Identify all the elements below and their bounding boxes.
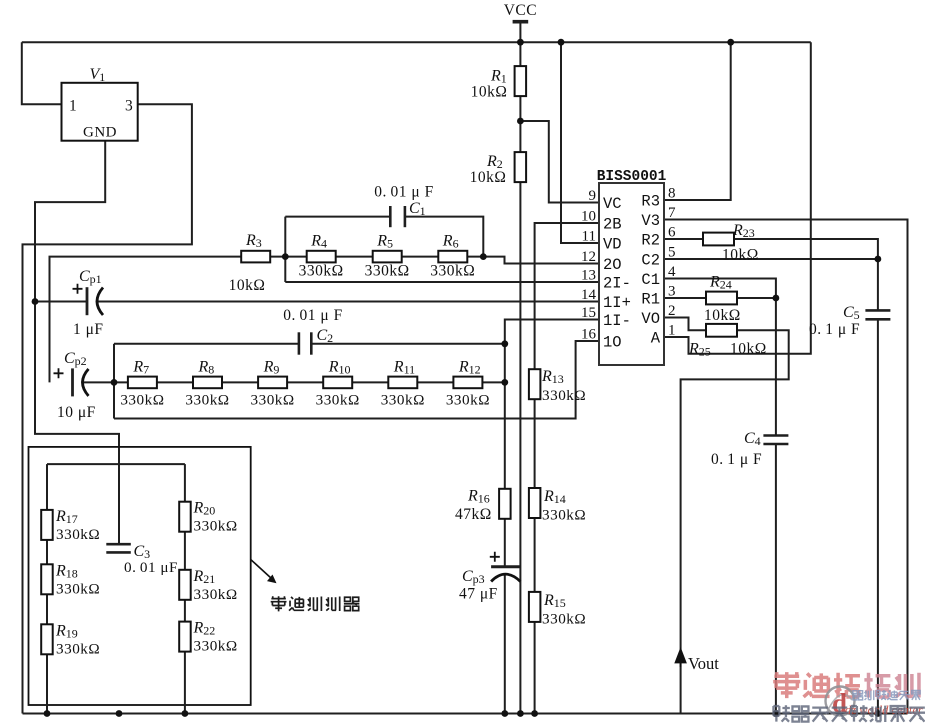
resistor R17 (41, 508, 100, 543)
resistor R20 (179, 500, 237, 535)
node Cp2-R7-C2 junction (111, 379, 118, 386)
node ground rail junction (531, 710, 538, 717)
svg-text:R7: R7 (132, 359, 149, 377)
capacitor C5 (865, 310, 890, 319)
capacitor Cp1 (73, 284, 104, 315)
node VCC-rail junction (517, 39, 524, 46)
resistor R10 (316, 359, 360, 409)
svg-text:330kΩ: 330kΩ (542, 611, 586, 628)
wire pin10 2B to R13 (535, 223, 599, 370)
svg-text:330kΩ: 330kΩ (185, 392, 229, 409)
svg-text:GND: GND (83, 125, 117, 141)
wire C4 to ground (775, 444, 777, 714)
wire R8-R9 (222, 381, 258, 383)
wire node A2 to pin 12 (483, 257, 599, 264)
wire Cp1 out to pin 14 (98, 301, 600, 303)
resistor R21 (179, 568, 237, 603)
wire R10-R11 (352, 381, 388, 383)
resistor R7 (120, 359, 164, 409)
svg-text:10 μF: 10 μF (57, 404, 96, 421)
svg-text:0. 01 μ F: 0. 01 μ F (283, 307, 342, 324)
svg-text:10kΩ: 10kΩ (704, 307, 741, 324)
svg-text:R12: R12 (458, 359, 481, 377)
node R24-pin4 junction (773, 295, 780, 302)
wire R9-R10 (287, 381, 323, 383)
watermark logo text (773, 672, 925, 722)
resistor R14 (529, 488, 586, 524)
wire VC to pin 9 (520, 121, 599, 203)
svg-text:R16: R16 (467, 488, 490, 506)
svg-text:R21: R21 (193, 568, 216, 586)
wire V1 GND to C3 (35, 141, 119, 545)
wire R25 to Vout line (681, 330, 789, 713)
svg-text:10kΩ: 10kΩ (722, 247, 759, 264)
svg-text:330kΩ: 330kΩ (56, 526, 100, 543)
wire C1 loop top-right (405, 217, 483, 257)
svg-text:V1: V1 (90, 66, 106, 84)
svg-text:330kΩ: 330kΩ (194, 638, 238, 655)
wire pin 5 C2 to C5 (664, 258, 878, 260)
svg-text:R5: R5 (376, 233, 393, 251)
node R6-C1 junction (480, 253, 487, 260)
resistor R6 (430, 233, 475, 280)
svg-text:R25: R25 (688, 341, 711, 359)
svg-text:2I-: 2I- (603, 275, 631, 293)
label C3 (124, 543, 178, 576)
wire R2 to ground (519, 181, 521, 714)
node ground rail junction (773, 710, 780, 717)
wire C2 loop top-left (114, 343, 299, 345)
svg-text:R3: R3 (641, 193, 660, 211)
svg-text:330kΩ: 330kΩ (251, 392, 295, 409)
svg-text:5: 5 (668, 245, 676, 261)
wire R3 to node A1 (270, 256, 306, 258)
svg-text:330kΩ: 330kΩ (120, 392, 164, 409)
wire C1 loop left (284, 217, 286, 282)
wire C5 to ground (877, 319, 879, 713)
wire R5-R6 (402, 256, 439, 258)
svg-text:Cp2: Cp2 (64, 350, 87, 368)
bandpass filter box (29, 447, 251, 705)
svg-text:13: 13 (581, 268, 596, 284)
svg-text:R22: R22 (193, 620, 216, 638)
capacitor C4 (763, 436, 788, 445)
wire VCC to pin 11 VD (561, 42, 599, 243)
label V1 (90, 66, 106, 84)
node ground rail junction (44, 710, 51, 717)
svg-text:7: 7 (668, 205, 676, 221)
wire pin 6 to R23 (664, 238, 703, 240)
wire Cp2 to R7 (83, 381, 128, 383)
wire VCC to R1 (519, 24, 521, 68)
svg-text:14: 14 (581, 287, 597, 303)
resistor R25 (688, 324, 767, 359)
svg-text:330kΩ: 330kΩ (194, 518, 238, 535)
power VCC (504, 2, 537, 22)
svg-text:2O: 2O (603, 256, 622, 274)
capacitor C2 (299, 332, 311, 354)
svg-text:8: 8 (668, 186, 676, 202)
svg-text:2: 2 (668, 303, 676, 319)
svg-text:Vout: Vout (688, 654, 719, 673)
svg-text:330kΩ: 330kΩ (365, 263, 410, 280)
svg-text:1: 1 (668, 323, 676, 339)
node ground rail junction (182, 710, 189, 717)
svg-text:6: 6 (668, 225, 676, 241)
resistor R18 (41, 562, 100, 597)
wire pin 15 1I- column (505, 320, 599, 490)
svg-text:330kΩ: 330kΩ (194, 586, 238, 603)
svg-text:C1: C1 (409, 200, 426, 218)
node ground rail junction (517, 710, 524, 717)
wire V1 pin1 to top rail (22, 42, 62, 104)
resistor R12 (446, 359, 490, 409)
resistor R24 (704, 274, 741, 325)
svg-text:C2: C2 (317, 327, 334, 345)
svg-text:R13: R13 (541, 368, 564, 386)
wire Cp1 to pin 14 1I+ (35, 301, 87, 303)
svg-text:VD: VD (603, 236, 622, 254)
svg-text:0. 01 μ F: 0. 01 μ F (374, 184, 433, 201)
wire bandpass top link (47, 463, 185, 465)
wire R6 to node A2 (467, 256, 483, 258)
svg-text:C2: C2 (641, 252, 660, 270)
resistor R2 (470, 152, 526, 186)
svg-text:330kΩ: 330kΩ (446, 392, 490, 409)
svg-text:R8: R8 (198, 359, 215, 377)
resistor R23 (703, 222, 759, 264)
node VD-rail junction (558, 39, 565, 46)
capacitor C1 (390, 206, 405, 227)
svg-text:C1: C1 (641, 271, 660, 289)
wire R19 to ground (46, 654, 48, 713)
wire V1 pin3 to bottom rail (23, 104, 192, 713)
node R1-R2-VC junction (517, 118, 524, 125)
wire R7-R8 (157, 381, 193, 383)
svg-text:330kΩ: 330kΩ (542, 507, 586, 524)
svg-text:2B: 2B (603, 216, 622, 234)
wire Cp3 to ground (504, 575, 506, 714)
resistor R4 (299, 233, 344, 280)
svg-text:4: 4 (668, 264, 676, 280)
node R12-pin15 junction (501, 379, 508, 386)
svg-text:R1: R1 (641, 291, 660, 309)
svg-text:R3: R3 (245, 232, 262, 250)
svg-text:330kΩ: 330kΩ (430, 263, 475, 280)
voltage source V1 box (62, 83, 138, 141)
svg-text:47 μF: 47 μF (459, 586, 498, 603)
svg-text:R10: R10 (328, 359, 351, 377)
svg-text:0. 01 μF: 0. 01 μF (124, 559, 178, 576)
wire R22 to ground (184, 652, 186, 714)
wire pin 4 C1 to C4 (664, 279, 776, 436)
wire Cp2 riser to R3 (50, 257, 242, 383)
wire R21-R22 (184, 600, 186, 622)
svg-text:Cp3: Cp3 (462, 568, 485, 586)
svg-text:10kΩ: 10kΩ (470, 169, 507, 186)
wire R18-R19 (46, 594, 48, 624)
svg-text:0. 1 μ F: 0. 1 μ F (809, 321, 860, 338)
svg-text:1I-: 1I- (603, 312, 631, 330)
svg-text:1I+: 1I+ (603, 294, 631, 312)
svg-text:330kΩ: 330kΩ (299, 263, 344, 280)
annotation bandpass filter text (271, 596, 360, 611)
wire R20-R21 (184, 532, 186, 570)
wire R1-R2 junction (519, 95, 521, 154)
wire R13-R14 (534, 399, 536, 489)
wire C1 loop top-left (285, 216, 390, 218)
wire VCC top rail (22, 41, 811, 43)
wire pin 2 VO jog (664, 318, 706, 331)
svg-text:330kΩ: 330kΩ (381, 392, 425, 409)
capacitor Cp2 (54, 368, 89, 396)
wire R14-R15 (534, 518, 536, 593)
svg-text:330kΩ: 330kΩ (56, 580, 100, 597)
label C2 value (283, 307, 342, 345)
node ground rail junction (875, 710, 882, 717)
svg-text:R6: R6 (442, 233, 459, 251)
svg-text:1 μF: 1 μF (73, 321, 104, 338)
wire R24 to pin4 column (737, 297, 776, 299)
wire pin 1 A to top rail (664, 42, 811, 354)
svg-text:Cp1: Cp1 (79, 268, 102, 286)
resistor R9 (251, 359, 295, 409)
wire R4-R5 (336, 256, 373, 258)
svg-text:R19: R19 (55, 622, 78, 640)
resistor R15 (529, 592, 586, 628)
label C1 value (374, 184, 433, 219)
resistor R19 (41, 622, 100, 657)
wire C2 loop left (113, 344, 115, 419)
resistor R8 (185, 359, 229, 409)
svg-text:R15: R15 (543, 592, 566, 610)
svg-text:R17: R17 (55, 508, 78, 526)
svg-text:11: 11 (582, 229, 596, 245)
svg-text:15: 15 (581, 305, 596, 321)
svg-text:R14: R14 (543, 488, 566, 506)
node pin8-rail junction (727, 39, 734, 46)
op-amp IC U1 BISS0001 (581, 169, 676, 365)
svg-text:330kΩ: 330kΩ (542, 387, 586, 404)
svg-text:0. 1 μ F: 0. 1 μ F (711, 451, 762, 468)
svg-text:330kΩ: 330kΩ (56, 640, 100, 657)
wire pin 3 to R24 (664, 297, 706, 299)
capacitor Cp3 (490, 552, 521, 582)
svg-text:A: A (651, 330, 661, 348)
svg-text:C4: C4 (744, 430, 761, 448)
node ground rail junction (501, 710, 508, 717)
svg-text:16: 16 (581, 327, 597, 343)
wire node to pin 13 2I- (285, 281, 599, 283)
annotation bandpass filter arrow (251, 560, 277, 584)
svg-text:V3: V3 (641, 212, 660, 230)
wire R20 top (184, 464, 186, 502)
svg-text:R23: R23 (732, 222, 755, 240)
label Cp3 (459, 568, 498, 603)
wire pin 7 V3 to ground rail (664, 220, 908, 714)
wire pin 8 to top rail (664, 42, 731, 200)
svg-text:R2: R2 (641, 232, 660, 250)
svg-text:12: 12 (581, 249, 596, 265)
svg-text:R20: R20 (193, 500, 216, 518)
wire R17-R18 (46, 540, 48, 565)
wire R16 to Cp3 (504, 519, 506, 567)
resistor R11 (381, 359, 425, 409)
svg-text:10: 10 (581, 209, 596, 225)
wire C2 loop top-right (311, 343, 505, 345)
wire R23 to C5 column (734, 239, 878, 259)
svg-text:VO: VO (641, 310, 660, 328)
wire ground bottom rail (23, 713, 908, 715)
svg-text:R4: R4 (310, 233, 327, 251)
svg-text:R24: R24 (709, 274, 732, 292)
svg-text:9: 9 (589, 188, 597, 204)
node R3-R4-C1 junction (282, 253, 289, 260)
svg-text:C5: C5 (843, 304, 860, 322)
resistor R22 (179, 620, 237, 655)
resistor R3 (229, 232, 271, 294)
node Cp1-GND junction (32, 298, 39, 305)
svg-text:10kΩ: 10kΩ (471, 84, 508, 101)
resistor R13 (529, 368, 586, 404)
wire pin 16 1O loop (114, 341, 599, 419)
svg-text:10kΩ: 10kΩ (730, 341, 767, 358)
svg-text:1: 1 (69, 98, 77, 115)
label C5 (809, 304, 860, 338)
node ground rail junction (116, 710, 123, 717)
svg-text:VC: VC (603, 195, 622, 213)
svg-text:10kΩ: 10kΩ (229, 277, 266, 294)
node R23-pin5 junction (875, 256, 882, 263)
resistor R16 (455, 488, 511, 524)
svg-text:R11: R11 (393, 359, 415, 377)
wire C5 column top (877, 259, 879, 310)
label C4 (711, 430, 762, 468)
svg-text:3: 3 (125, 98, 133, 115)
svg-text:R18: R18 (55, 562, 78, 580)
label Cp2 (57, 350, 96, 421)
wire R12 to node (482, 381, 504, 383)
svg-text:1O: 1O (603, 334, 622, 352)
svg-text:R9: R9 (263, 359, 280, 377)
svg-text:47kΩ: 47kΩ (455, 506, 492, 523)
resistor R5 (365, 233, 410, 280)
svg-text:330kΩ: 330kΩ (316, 392, 360, 409)
resistor R1 (471, 66, 526, 100)
wire R15 to ground (534, 621, 536, 714)
node Vout arrow (676, 650, 720, 674)
node C2-pin15 junction (501, 340, 508, 347)
svg-text:BISS0001: BISS0001 (597, 169, 667, 185)
svg-text:3: 3 (668, 284, 676, 300)
wire R17 top (46, 464, 48, 510)
capacitor C3 (106, 544, 131, 552)
svg-text:VCC: VCC (504, 2, 537, 19)
label Cp1 (73, 268, 104, 338)
wire R11-R12 (417, 381, 453, 383)
